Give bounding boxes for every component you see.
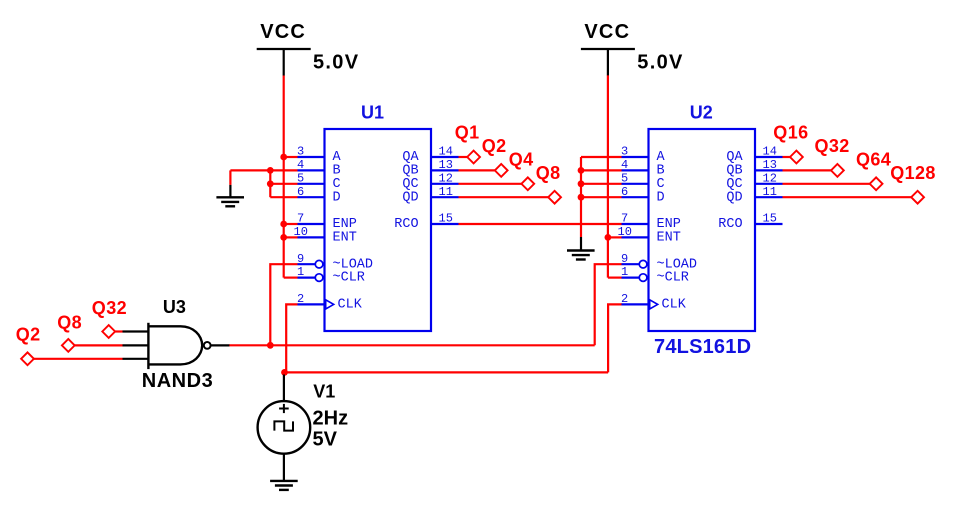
U1 CLK edge-trigger triangle — [326, 300, 334, 309]
wire: vertical tying U1 pins 4,5,6 — [269, 170, 271, 197]
svg-text:D: D — [657, 190, 665, 205]
wire: V1 output run along bottom — [285, 371, 609, 373]
V1 circle body — [258, 401, 311, 454]
svg-text:10: 10 — [618, 225, 632, 239]
svg-text:14: 14 — [439, 145, 453, 159]
wire: NAND3 output run — [229, 344, 595, 346]
U2 pin 6 stub — [622, 196, 649, 198]
svg-text:U1: U1 — [361, 103, 384, 123]
U1 pin 7 stub — [298, 223, 325, 225]
wire: U1 QC to terminal Q4 — [459, 183, 522, 185]
wire: U2 QB to terminal Q32 — [783, 169, 832, 171]
svg-text:ENT: ENT — [333, 231, 357, 246]
svg-text:5.0V: 5.0V — [313, 52, 359, 74]
junction at U2 pin 6 tie — [578, 194, 585, 201]
svg-text:~CLR: ~CLR — [333, 271, 365, 286]
terminal/node Q8 — [536, 163, 561, 204]
svg-text:Q8: Q8 — [536, 163, 561, 183]
wire: U1 pin 3 (A) to VCC rail — [284, 156, 298, 158]
svg-text:1: 1 — [621, 265, 628, 279]
V1 square-wave glyph — [274, 421, 293, 430]
ground symbol under V1 — [270, 481, 298, 490]
svg-text:~CLR: ~CLR — [657, 271, 689, 286]
svg-text:CLK: CLK — [338, 298, 363, 313]
junction on VCC rail at U1 pin 10 — [280, 234, 287, 241]
terminal/node Q1 — [455, 123, 480, 164]
wire: U2 QD to terminal Q128 — [783, 196, 912, 198]
U1 pin 9 stub with inversion bubble — [298, 263, 316, 265]
svg-text:4: 4 — [297, 158, 304, 172]
svg-text:9: 9 — [621, 252, 628, 266]
wire: U1 QB to terminal Q2 — [459, 169, 495, 171]
svg-text:Q32: Q32 — [815, 136, 850, 156]
svg-text:15: 15 — [439, 212, 453, 226]
svg-text:QD: QD — [726, 190, 742, 205]
wire: U1 QA to terminal Q1 — [459, 156, 468, 158]
terminal/node Q16 — [773, 123, 808, 164]
U2 pin 1 stub with inversion bubble — [622, 277, 640, 279]
svg-text:7: 7 — [621, 212, 628, 226]
svg-text:13: 13 — [439, 158, 453, 172]
junction at U2 pin 4 tie — [578, 167, 585, 174]
wire: U1 pin 6 (D) — [270, 196, 297, 198]
svg-text:V1: V1 — [313, 381, 335, 401]
svg-text:Q128: Q128 — [890, 163, 936, 183]
terminal/node Q32 — [815, 136, 850, 177]
VCC power symbol (left, for U1) — [257, 21, 360, 75]
U3 output pin stub — [211, 344, 230, 346]
terminal/node Q4 — [509, 150, 535, 191]
svg-text:9: 9 — [297, 252, 304, 266]
svg-text:NAND3: NAND3 — [142, 370, 213, 392]
U1 body outline — [325, 129, 432, 331]
U1 pin 14 stub — [431, 156, 459, 158]
U3 input bar — [147, 323, 149, 369]
U1 pin 6 stub — [298, 196, 325, 198]
svg-text:VCC: VCC — [260, 21, 306, 43]
U1 pin 12 stub — [431, 183, 459, 185]
U1 pin 1 stub with inversion bubble — [298, 277, 316, 279]
wire: U2 pin 6 (D) — [581, 196, 622, 198]
wire: riser to U2 pin 9 ~LOAD — [595, 264, 622, 345]
svg-text:11: 11 — [763, 185, 777, 199]
svg-text:5.0V: 5.0V — [637, 52, 683, 74]
wire: terminal Q8 to U3 input — [75, 344, 123, 346]
svg-text:1: 1 — [297, 265, 304, 279]
terminal/node Q64 — [856, 150, 891, 191]
junction at U1 pin 5 tie — [267, 180, 274, 187]
svg-text:2: 2 — [621, 292, 628, 306]
U1 pin 10 stub — [298, 236, 325, 238]
U2 pin 11 stub — [755, 196, 783, 198]
U1 pin 13 stub — [431, 169, 459, 171]
svg-text:Q32: Q32 — [92, 298, 127, 318]
junction at U1 pin 4 tie — [267, 167, 274, 174]
svg-text:12: 12 — [763, 171, 777, 185]
wire: U2 pin 4 (B) — [581, 169, 622, 171]
wire: U1 pin 10 ENT to VCC rail — [284, 236, 298, 238]
svg-text:RCO: RCO — [718, 217, 742, 232]
wire: riser to U1 pin 9 ~LOAD — [270, 264, 297, 345]
svg-text:CLK: CLK — [662, 298, 687, 313]
svg-text:Q4: Q4 — [509, 150, 534, 170]
svg-text:QD: QD — [402, 190, 418, 205]
terminal/node Q8 (input) — [57, 313, 82, 352]
U2 pin 9 stub with inversion bubble — [622, 263, 640, 265]
U2 CLK edge-trigger triangle — [650, 300, 658, 309]
svg-text:Q8: Q8 — [57, 313, 82, 333]
svg-text:6: 6 — [297, 185, 304, 199]
svg-text:12: 12 — [439, 171, 453, 185]
terminal/node Q2 (input) — [16, 324, 41, 365]
svg-text:13: 13 — [763, 158, 777, 172]
svg-text:Q2: Q2 — [16, 324, 41, 344]
svg-text:Q64: Q64 — [856, 150, 891, 170]
wire: U1 pin 1 ~CLR to VCC rail (corner) — [284, 277, 298, 279]
svg-text:10: 10 — [294, 225, 308, 239]
wire: ground to U1 pin 4 (B) — [230, 169, 297, 171]
U1 pin 3 stub — [298, 156, 325, 158]
terminal/node Q32 (input) — [92, 298, 127, 338]
svg-text:RCO: RCO — [394, 217, 418, 232]
wire: U2 QA to terminal Q16 — [783, 156, 791, 158]
U2 pin 15 stub — [755, 223, 783, 225]
svg-text:3: 3 — [621, 145, 628, 159]
wire: U2 pin 10 ENT to VCC rail — [608, 236, 622, 238]
wire: U1 CLK (pin 2) drop to V1 — [286, 304, 297, 372]
V1 plus sign — [279, 408, 289, 410]
svg-text:3: 3 — [297, 145, 304, 159]
U1 pin 5 stub — [298, 183, 325, 185]
svg-text:11: 11 — [439, 185, 453, 199]
U2 pin 13 stub — [755, 169, 783, 171]
wire: U1 pin 7 ENP to VCC rail — [284, 223, 298, 225]
wire: U1 QD to terminal Q8 — [459, 196, 549, 198]
U3 input pin stubs — [123, 330, 149, 332]
ground symbol for U1 inputs — [216, 170, 244, 206]
svg-text:2Hz: 2Hz — [313, 408, 349, 430]
U2 pin 3 stub — [622, 156, 649, 158]
wire: VCC rail to U1 (net VCC) — [283, 76, 285, 278]
wire: U2 pin 5 (C) — [581, 183, 622, 185]
junction at V1 top node — [281, 369, 288, 376]
U1 pin 15 stub — [431, 223, 459, 225]
wire: VCC rail to U2 (net VCC) — [607, 75, 609, 277]
wire: riser to U2 CLK (pin 2) — [608, 304, 622, 372]
svg-text:7: 7 — [297, 212, 304, 226]
junction on VCC rail at U1 pin 7 — [280, 221, 287, 228]
U2 pin 12 stub — [755, 183, 783, 185]
IC U2 74LS161D counter — [618, 103, 783, 332]
ground symbol for U2 inputs — [567, 197, 595, 259]
svg-text:74LS161D: 74LS161D — [654, 336, 751, 358]
wire: terminal Q32 to U3 input — [115, 330, 122, 332]
svg-text:U3: U3 — [163, 297, 186, 317]
wire: U2 pin 1 ~CLR to VCC rail (corner) — [608, 277, 622, 279]
svg-text:Q16: Q16 — [773, 123, 808, 143]
terminal/node Q128 — [890, 163, 936, 204]
terminal/node Q2 — [482, 136, 508, 177]
svg-text:4: 4 — [621, 158, 628, 172]
U2 pin 4 stub — [622, 169, 649, 171]
svg-text:15: 15 — [763, 212, 777, 226]
junction NAND output / U1 ~LOAD riser — [267, 342, 274, 349]
U2 pin 14 stub — [755, 156, 783, 158]
svg-text:5: 5 — [297, 171, 304, 185]
U3 output inversion bubble — [204, 342, 211, 349]
wire: U2 pin 3 (A) — [581, 156, 622, 158]
svg-text:D: D — [333, 190, 341, 205]
junction on U2 VCC rail at pin 10 — [605, 234, 612, 241]
V1 top lead — [283, 375, 285, 402]
U1 pin 2 stub (CLK) — [298, 303, 325, 305]
U2 pin 5 stub — [622, 183, 649, 185]
svg-text:U2: U2 — [690, 103, 713, 123]
svg-text:14: 14 — [763, 145, 777, 159]
U2 pin 2 stub (CLK) — [622, 303, 649, 305]
clock source V1 — [258, 375, 348, 481]
svg-text:Q1: Q1 — [455, 123, 480, 143]
U1 pin 4 stub — [298, 169, 325, 171]
NAND gate U3 — [123, 297, 230, 392]
svg-text:6: 6 — [621, 185, 628, 199]
svg-text:5V: 5V — [313, 429, 338, 451]
svg-text:Q2: Q2 — [482, 136, 507, 156]
svg-text:VCC: VCC — [584, 21, 630, 43]
svg-text:5: 5 — [621, 171, 628, 185]
V1 bottom lead — [283, 454, 285, 481]
U3 body — [148, 326, 202, 364]
svg-text:ENT: ENT — [657, 231, 681, 246]
IC U1 74LS161D counter — [294, 103, 459, 332]
U2 pin 10 stub — [622, 236, 649, 238]
wire: terminal Q2 to U3 input — [34, 358, 123, 360]
U1 pin 11 stub — [431, 196, 459, 198]
wire: U2 QC to terminal Q64 — [783, 183, 870, 185]
junction on VCC rail at U1 pin 3 — [280, 154, 287, 161]
svg-text:2: 2 — [297, 292, 304, 306]
VCC power symbol (right, for U2) — [581, 21, 684, 75]
U2 body outline — [649, 129, 756, 331]
wire: U1 RCO (pin 15) to U2 ENP (pin 7) — [459, 223, 622, 225]
junction at U2 pin 5 tie — [578, 180, 585, 187]
U2 pin 7 stub — [622, 223, 649, 225]
wire: U1 pin 5 (C) — [270, 183, 297, 185]
wire: vertical tying U2 pins 3,4,5,6 to ground — [580, 157, 582, 197]
